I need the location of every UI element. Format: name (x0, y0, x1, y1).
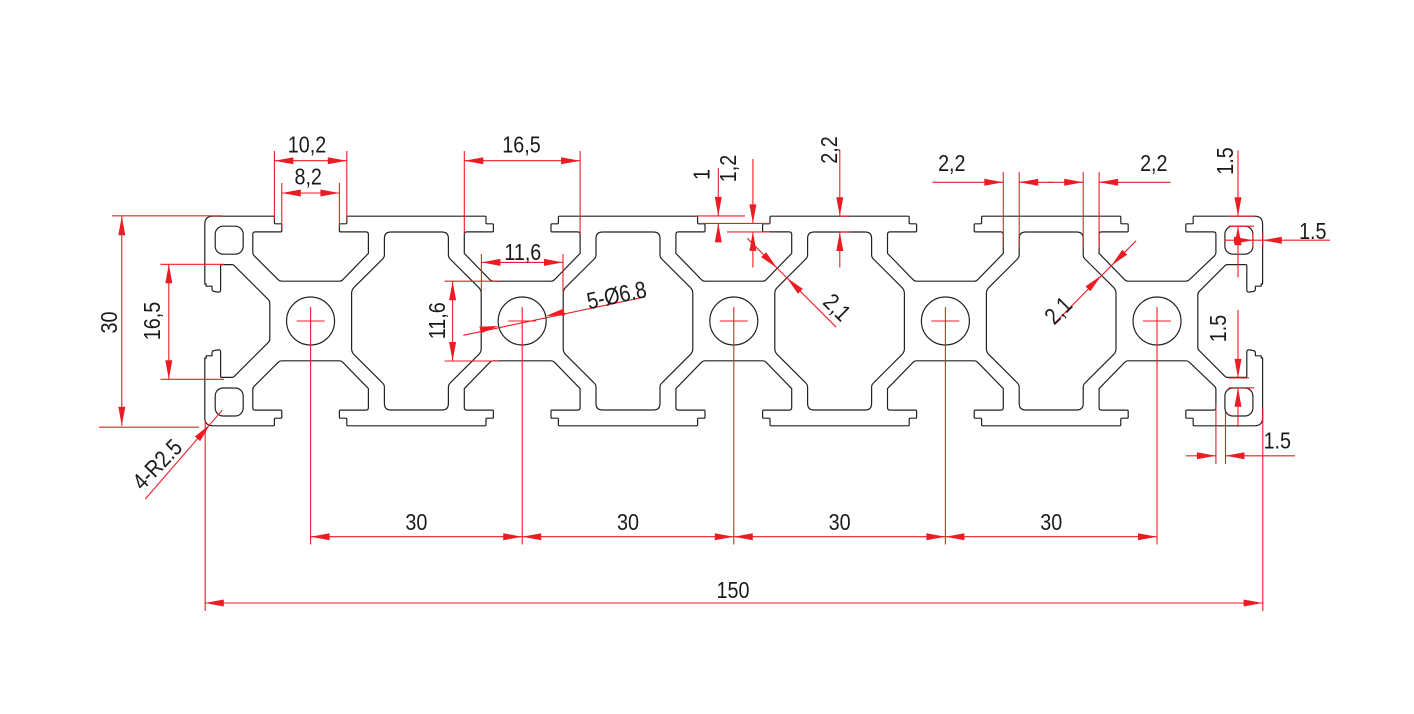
dimension 8,2 (slot lip gap, station 1 top) (282, 163, 340, 228)
svg-text:2,2: 2,2 (815, 136, 842, 163)
svg-text:11,6: 11,6 (504, 239, 541, 266)
svg-text:1.5: 1.5 (1204, 315, 1231, 342)
dimension 2,2 (web thickness left of cavity B4) (933, 149, 1054, 248)
svg-text:2,2: 2,2 (1140, 149, 1167, 176)
centre hole 1 (diameter 6.8) (287, 297, 335, 345)
centerline hole 2 (508, 307, 536, 545)
svg-text:16,5: 16,5 (502, 131, 540, 158)
dimension 2,1 (diagonal web thickness, station 5) (1039, 241, 1136, 330)
dimension chain 30x4 (hole pitch) (311, 508, 1157, 540)
closed cavity B3 between stations 3 and 4 (775, 232, 905, 410)
dimension 1.5 (end slot floor to boss, bottom right) (1204, 310, 1254, 427)
svg-text:1,2: 1,2 (714, 155, 741, 182)
svg-text:11,6: 11,6 (423, 302, 450, 339)
leader 5-&#216;6.8 (centre hole diameter callout) (463, 275, 649, 335)
closed cavity B2 between stations 2 and 3 (563, 232, 693, 410)
dimension 2,2 (web thickness right of cavity B4) (1048, 149, 1171, 248)
dimension 16,5 (end slot cavity height) (138, 264, 224, 379)
closed cavity B4 between stations 4 and 5 (986, 232, 1116, 410)
dimension 2,1 (diagonal web thickness, station 3) (747, 238, 856, 327)
centre hole 4 (diameter 6.8) (921, 297, 969, 345)
svg-text:16,5: 16,5 (138, 302, 165, 340)
svg-text:30: 30 (617, 508, 639, 535)
svg-text:150: 150 (717, 576, 750, 603)
corner boss hole bottom-left (215, 388, 243, 416)
leader 4-R2.5 (outer corner radius callout) (127, 410, 222, 499)
dimension 1.5 (surface to boss, top right) (1211, 147, 1254, 277)
svg-text:10,2: 10,2 (288, 131, 326, 158)
centerline hole 4 (931, 307, 959, 545)
svg-text:2,2: 2,2 (938, 149, 965, 176)
svg-text:1.5: 1.5 (1211, 147, 1238, 174)
dimension 30 (profile height) (95, 216, 222, 427)
dimension 1.5 (boss to outer edge, right) (1225, 217, 1331, 247)
centre hole 2 (diameter 6.8) (498, 297, 546, 345)
svg-text:30: 30 (405, 508, 427, 535)
centre hole 5 (diameter 6.8) (1133, 297, 1181, 345)
corner boss hole bottom-right (1225, 388, 1253, 416)
dimension 1,2 (shelf-to-lip depth, station 3) (714, 155, 756, 268)
dimension 150 (profile width) (205, 408, 1263, 611)
centre hole 3 (diameter 6.8) (710, 297, 758, 345)
dimension 16,5 (slot cavity width, station 2 top) (464, 131, 580, 234)
dimension 11,6 horizontal (core width, station 2) (481, 239, 563, 292)
closed cavity B1 between stations 1 and 2 (352, 232, 482, 410)
corner boss hole top-right (1225, 226, 1253, 254)
dimension 1 (surface-to-shelf depth, station 3) (688, 168, 770, 242)
svg-text:1: 1 (688, 169, 715, 180)
svg-text:1.5: 1.5 (1264, 427, 1291, 454)
aluminium profile outer contour with T-slots and end slots (205, 216, 1263, 426)
svg-text:8,2: 8,2 (294, 163, 321, 190)
svg-text:30: 30 (829, 508, 851, 535)
svg-text:1.5: 1.5 (1299, 217, 1326, 244)
centerline hole 3 (720, 307, 748, 545)
dimension 1.5 (block face to boss hole, bottom right) (1186, 405, 1295, 464)
svg-text:30: 30 (95, 312, 122, 334)
dimension 10,2 (slot opening width, station 1 top) (274, 131, 346, 220)
corner boss hole top-left (215, 226, 243, 254)
svg-text:30: 30 (1040, 508, 1062, 535)
centerline hole 1 (297, 307, 325, 545)
dimension 11,6 vertical (core height, station 2) (423, 281, 499, 361)
centerline hole 5 (1143, 307, 1171, 545)
dimension 2,2 vertical (top wall thickness) (815, 136, 849, 267)
